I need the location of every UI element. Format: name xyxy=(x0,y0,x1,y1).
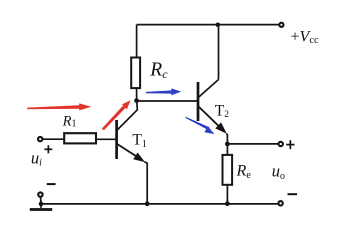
wire input minus terminal stub xyxy=(40,197,43,204)
wire output top xyxy=(227,143,278,145)
resistor Rc xyxy=(131,58,140,89)
blue arrow at T2 emitter xyxy=(185,117,214,135)
ground xyxy=(30,204,52,211)
wire T1 emitter to ground rail xyxy=(144,162,147,204)
wire Re top lead xyxy=(226,144,228,155)
terminal output plus xyxy=(279,142,283,146)
resistor R1 xyxy=(64,133,96,143)
red arrow horizontal input signal xyxy=(27,103,91,110)
wire T2 emitter to node xyxy=(226,134,229,144)
wire top supply rail xyxy=(137,24,280,26)
transistor T1 emitter with arrow xyxy=(117,144,145,163)
node A below Rc xyxy=(134,98,139,103)
wire Rc bottom lead xyxy=(136,88,138,100)
transistor T2 base bar xyxy=(197,82,200,121)
transistor T2 emitter with arrow xyxy=(198,106,227,134)
node T1 emitter on ground rail xyxy=(145,201,150,206)
wire T2 collector diagonal xyxy=(198,80,219,98)
wire T1 collector diagonal xyxy=(117,101,138,131)
terminal input minus xyxy=(38,192,42,196)
terminal +Vcc xyxy=(279,23,283,27)
label minus at input xyxy=(47,183,56,185)
label plus at output xyxy=(286,140,294,149)
wire T1 base from R1 xyxy=(96,138,116,140)
node T2 emitter output xyxy=(225,142,230,147)
label minus at output xyxy=(288,193,298,195)
resistor Re xyxy=(223,155,233,185)
wire bottom ground rail xyxy=(41,203,278,205)
transistor T1 base bar xyxy=(115,120,118,159)
blue arrow right of Rc xyxy=(146,88,181,95)
terminal input plus xyxy=(38,137,42,141)
node ground junction xyxy=(39,202,44,207)
wire Rc top lead xyxy=(136,25,138,58)
wire input terminal to R1 xyxy=(42,138,64,140)
wire T2 collector vertical xyxy=(218,25,220,80)
wire Re bottom lead xyxy=(226,185,228,204)
terminal output minus xyxy=(278,201,282,205)
node junction on top rail xyxy=(216,23,221,28)
node Re on ground rail xyxy=(225,201,230,206)
label plus at input xyxy=(44,145,52,153)
red arrow diagonal to node A xyxy=(102,100,131,130)
wire base of T2 from node A xyxy=(137,100,198,102)
